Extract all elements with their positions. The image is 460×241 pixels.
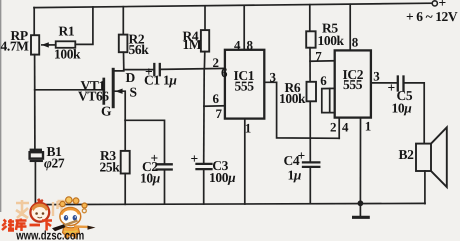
wire to IC1 pins 6 7 <box>204 105 225 107</box>
ground bar <box>354 216 369 219</box>
wire C4 bottom lead <box>309 168 311 203</box>
wire IC1 pins 4 8 supply drop <box>243 6 245 50</box>
piezo element B1 bottom plate <box>31 160 42 162</box>
svg-text:4: 4 <box>234 37 241 52</box>
wire IC2 pin3 to C5 <box>371 82 397 84</box>
IC2 555 box <box>335 50 371 117</box>
svg-text:100μ: 100μ <box>209 170 236 185</box>
svg-text:4.7M: 4.7M <box>1 39 30 54</box>
piezo element B1 body <box>30 152 43 158</box>
wire R1 left lead <box>48 44 56 46</box>
wire R3 bottom lead <box>124 174 126 205</box>
svg-text:4: 4 <box>342 119 349 134</box>
wire B2 bottom lead <box>424 171 426 204</box>
svg-text:6: 6 <box>213 91 220 106</box>
svg-text:1: 1 <box>245 121 252 136</box>
wire C1 to IC1 pin2 <box>161 68 225 69</box>
wire R2 top lead <box>122 7 124 35</box>
svg-text:1μ: 1μ <box>163 73 177 88</box>
watermark tan text zhao IC pian <box>16 200 67 218</box>
wire IC1 pin3 output <box>264 82 339 138</box>
scan edge artifact <box>0 0 2 212</box>
svg-text:G: G <box>101 104 112 119</box>
svg-text:2: 2 <box>213 55 220 70</box>
capacitor C3 top plate <box>197 163 212 165</box>
resistor R6 <box>307 82 317 102</box>
svg-text:100k: 100k <box>279 91 306 106</box>
wire C3 bottom lead <box>203 170 205 204</box>
VT1 source arrow <box>115 89 122 94</box>
potentiometer RP <box>31 35 39 54</box>
watermark mascot <box>52 197 96 239</box>
wei glyph <box>2 219 14 231</box>
wire source node to C2 branch <box>125 120 164 163</box>
IC1 555 box <box>225 50 264 119</box>
svg-text:6: 6 <box>320 73 327 88</box>
svg-text:100k: 100k <box>318 33 345 48</box>
svg-text:+: + <box>388 80 395 95</box>
wire R6 bottom to C4 node <box>309 101 311 161</box>
supply terminal circle <box>432 1 437 6</box>
svg-text:R1: R1 <box>59 24 75 39</box>
wire IC1 pin1 to ground bus <box>244 119 246 204</box>
speaker B2 horn <box>431 127 447 187</box>
svg-text:B2: B2 <box>399 147 415 162</box>
wire IC2 pin7 <box>310 60 335 62</box>
speaker B2 frame <box>416 144 431 171</box>
svg-text:7: 7 <box>315 48 322 63</box>
wire IC2 pins 2 4 drop <box>338 118 340 139</box>
resistor R2 <box>119 35 128 53</box>
wire RP bottom to B1 <box>34 55 36 149</box>
wire C5 to speaker <box>405 83 425 144</box>
capacitor C5 right plate <box>402 77 404 91</box>
svg-text:56k: 56k <box>129 42 150 57</box>
ground stem <box>359 203 361 216</box>
transistor VT1 channel bar <box>112 69 115 106</box>
resistor R1 <box>56 41 76 48</box>
wire R4 bottom to pin2 wire <box>203 52 205 69</box>
svg-text:VT66: VT66 <box>78 89 109 104</box>
capacitor C3 bottom plate <box>197 168 212 170</box>
wire IC2 pin8 supply drop <box>349 4 351 50</box>
svg-text:555: 555 <box>235 79 255 94</box>
svg-text:555: 555 <box>343 77 363 92</box>
capacitor C1 right plate <box>159 64 161 75</box>
wire top supply bus <box>34 3 432 7</box>
capacitor C2 top plate <box>157 163 172 165</box>
wire bottom ground bus <box>35 203 425 204</box>
piezo element B1 top plate <box>31 149 41 151</box>
capacitor C4 top plate <box>303 161 319 163</box>
svg-text:+: + <box>191 151 198 166</box>
resistor R5 <box>306 31 315 47</box>
watermark logo ring with face <box>30 198 49 221</box>
svg-text:25k: 25k <box>100 160 121 175</box>
svg-text:1: 1 <box>365 118 372 133</box>
transistor VT1 gate bar <box>102 79 105 103</box>
wire IC2 pin6 stub inner <box>329 89 331 113</box>
resistor R3 <box>121 151 130 174</box>
svg-text:10μ: 10μ <box>392 101 413 116</box>
svg-text:1μ: 1μ <box>288 168 302 183</box>
svg-text:10μ: 10μ <box>140 171 161 186</box>
xia glyph <box>42 221 52 231</box>
svg-text:+ 6 ~ 12V: + 6 ~ 12V <box>406 9 458 24</box>
svg-text:6: 6 <box>221 65 228 80</box>
svg-text:+: + <box>298 148 305 163</box>
svg-text:7: 7 <box>216 106 223 121</box>
wire node down to C3 <box>203 69 206 163</box>
svg-text:100k: 100k <box>54 47 81 62</box>
wire R5 to R6 <box>309 48 311 82</box>
capacitor C5 left plate <box>397 77 399 91</box>
wire gate node to VT1 <box>35 89 103 91</box>
svg-text:3: 3 <box>373 68 380 83</box>
wire R2 bottom to drain node <box>123 52 125 69</box>
yi glyph <box>30 224 41 227</box>
wire R5 top lead <box>309 5 311 32</box>
wire VT1 source lead <box>115 91 126 120</box>
wire IC2 pin1 to ground <box>359 118 361 204</box>
wiper arrow into RP <box>42 44 49 46</box>
wire RP top lead <box>33 8 35 36</box>
svg-text:2: 2 <box>330 119 337 134</box>
wire R1 right lead up to bus <box>75 7 93 44</box>
svg-text:D: D <box>126 70 136 85</box>
wire R4 top lead <box>204 6 206 30</box>
wire drain node to VT1 drain <box>115 70 124 71</box>
wire drain node to C1 <box>124 69 153 71</box>
svg-text:S: S <box>130 85 137 100</box>
capacitor C1 left plate <box>153 64 155 75</box>
svg-text:8: 8 <box>352 35 359 50</box>
ku glyph <box>16 219 27 232</box>
svg-text:www.dzsc.com: www.dzsc.com <box>15 228 84 241</box>
wire B1 bottom lead <box>34 162 36 205</box>
ground junction dot <box>358 200 364 206</box>
capacitor C4 bottom plate <box>303 166 319 168</box>
svg-text:8: 8 <box>247 38 254 53</box>
wire IC2 pin6 stub <box>322 88 335 112</box>
resistor R4 <box>201 30 209 51</box>
watermark weiku yixia red text <box>2 219 52 232</box>
svg-text:C1: C1 <box>144 73 160 88</box>
wire R3 top lead <box>124 120 126 151</box>
svg-text:1M: 1M <box>183 37 202 52</box>
svg-text:φ27: φ27 <box>44 156 65 171</box>
capacitor C2 bottom plate <box>157 168 172 170</box>
wire C2 bottom lead <box>164 171 166 205</box>
svg-text:3: 3 <box>270 69 277 84</box>
